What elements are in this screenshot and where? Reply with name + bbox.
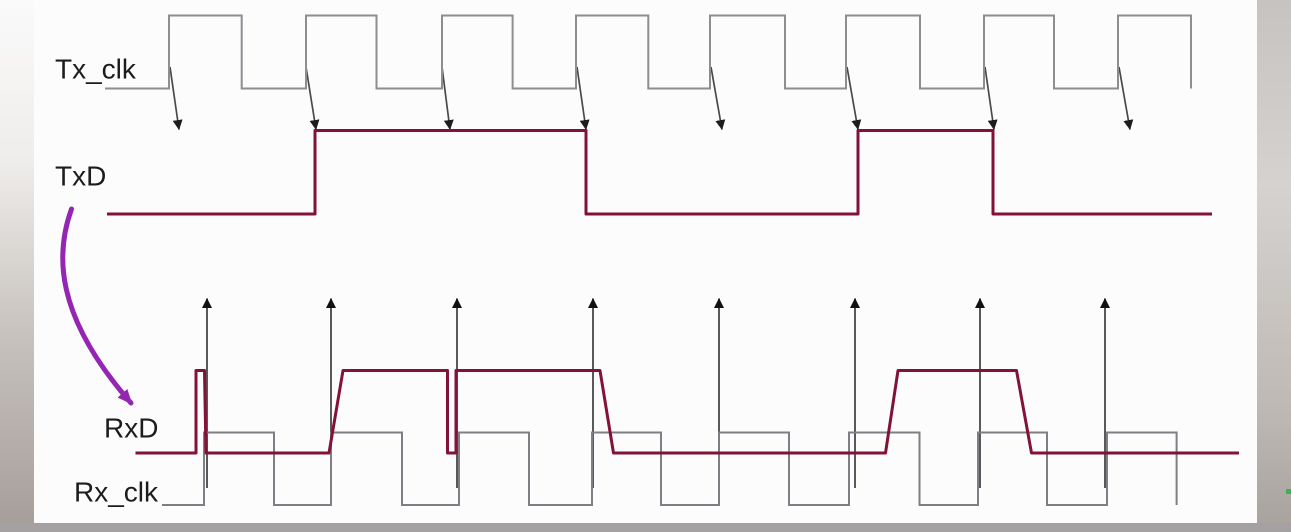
svg-text:Rx_clk: Rx_clk (74, 477, 159, 508)
svg-text:RxD: RxD (104, 413, 158, 444)
svg-text:TxD: TxD (55, 161, 106, 192)
svg-text:Tx_clk: Tx_clk (55, 54, 137, 85)
